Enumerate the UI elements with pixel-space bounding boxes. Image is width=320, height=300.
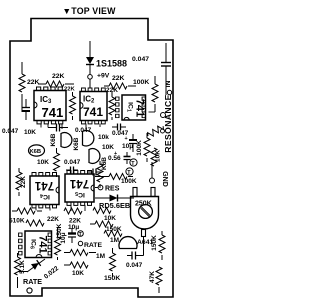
potentiometer 250K — [131, 188, 159, 237]
wire IC5 to 100K — [95, 176, 104, 178]
title TOP VIEW — [62, 6, 116, 16]
svg-text:0.047: 0.047 — [64, 159, 81, 166]
svg-text:1M: 1M — [96, 253, 105, 260]
resistor 10K below zener — [93, 208, 116, 223]
wire diode top — [89, 41, 91, 57]
resistor 22K vertical left of IC1 — [106, 87, 118, 120]
svg-text:741: 741 — [34, 179, 54, 191]
node GND — [150, 171, 169, 187]
capacitor 0.047 top right — [132, 43, 171, 95]
resistor 150K vertical right of IC6 — [55, 223, 64, 260]
transistor K6B no.1 — [50, 133, 72, 148]
node IN — [165, 81, 172, 95]
wire pot to cap — [141, 237, 144, 256]
terminal RES — [98, 185, 120, 192]
resistor 150K right vertical — [151, 231, 165, 260]
wire 9V to IC2 — [89, 79, 91, 88]
terminal +9V — [88, 73, 110, 80]
wire GND vertical — [151, 162, 153, 178]
capacitor 0.56 — [108, 152, 131, 164]
svg-text:RESONANCE: RESONANCE — [163, 94, 173, 153]
resistor 10K right vertical — [151, 148, 162, 166]
svg-text:10μ: 10μ — [68, 224, 79, 231]
svg-text:10K: 10K — [104, 215, 116, 222]
svg-text:100K: 100K — [121, 178, 137, 185]
capacitor electrolytic left — [22, 99, 30, 120]
svg-text:IC6: IC6 — [29, 239, 37, 249]
svg-text:+: + — [125, 136, 128, 142]
svg-text:100K: 100K — [133, 79, 149, 86]
wire IC3 pin leads — [41, 124, 62, 130]
wire IC4 pin leads — [36, 208, 50, 211]
test point T1 — [130, 159, 137, 167]
resistor 1M bottom horizontal — [64, 250, 105, 261]
svg-text:150K: 150K — [151, 235, 158, 251]
svg-text:K6B: K6B — [50, 133, 57, 146]
wire IC2 pin leads — [86, 124, 100, 129]
svg-text:1M: 1M — [110, 237, 119, 244]
hole right — [161, 113, 166, 118]
svg-text:0.047: 0.047 — [132, 56, 149, 63]
resistor 150K bottom mid horizontal — [90, 221, 122, 233]
board outline — [10, 19, 173, 298]
resistor vertical below K6B no.3 — [97, 164, 103, 188]
svg-text:IN: IN — [165, 81, 172, 88]
svg-text:K6B: K6B — [101, 157, 108, 170]
resistor between IC3 and IC2 — [70, 92, 76, 120]
label 22K mid resistor — [64, 87, 75, 93]
svg-text:10K: 10K — [24, 129, 36, 136]
transistor K6B no.3 — [89, 149, 108, 170]
wire 5.1K to border — [17, 281, 19, 288]
resistor 22K vertical left of IC4 — [16, 168, 27, 196]
op-amp IC6 741 (rotated) — [19, 231, 52, 258]
svg-text:1S1588: 1S1588 — [96, 59, 127, 69]
resistor 22K horizontal right of +9V — [104, 75, 136, 89]
svg-text:0.047: 0.047 — [2, 128, 19, 135]
svg-text:22K: 22K — [112, 75, 125, 82]
diode RD5.6EB zener — [95, 195, 134, 211]
resistor 47K bottom right vertical — [149, 267, 162, 293]
svg-text:+9V: +9V — [97, 73, 110, 80]
capacitor 0.047 below IC3 — [48, 124, 92, 135]
resistor 100K mid horizontal — [104, 174, 137, 186]
transistor K6B circled label — [29, 145, 45, 156]
wire T3 to resistor — [99, 161, 101, 165]
svg-text:0.047: 0.047 — [126, 262, 143, 269]
svg-text:IC1: IC1 — [126, 102, 134, 112]
capacitor small above IC5 — [88, 169, 102, 176]
svg-text:K6B: K6B — [30, 149, 42, 155]
svg-text:10K: 10K — [37, 159, 49, 166]
resistor 22K left vertical — [19, 62, 40, 112]
svg-text:GND: GND — [161, 171, 168, 187]
transistor K6B no.2 — [73, 131, 94, 151]
label 10K — [24, 129, 36, 136]
capacitor 10u electrolytic — [114, 134, 137, 157]
label 0.047 far left — [2, 128, 19, 135]
svg-text:22K: 22K — [52, 73, 65, 80]
op-amp IC2 741 — [80, 88, 107, 124]
svg-text:47K: 47K — [149, 271, 156, 283]
wire IC1 to 100K — [149, 111, 156, 113]
svg-text:K6B: K6B — [73, 137, 80, 150]
op-amp IC4 741 (rotated 180) — [30, 173, 59, 208]
op-amp IC1 741 (rotated) — [116, 95, 146, 120]
test point T2 — [126, 168, 133, 176]
svg-text:RATE: RATE — [84, 242, 102, 249]
node RATE bottom — [23, 277, 42, 293]
svg-text:IC5: IC5 — [75, 190, 85, 198]
resistor 100K top right vertical — [133, 76, 158, 110]
op-amp IC5 741 (rotated 180) — [65, 171, 94, 206]
svg-text:22K: 22K — [47, 216, 59, 223]
svg-text:741: 741 — [69, 177, 89, 189]
svg-text:100K: 100K — [136, 140, 143, 156]
label 10k + capacitor 0.047 mid — [98, 124, 129, 142]
resistor 5.1K vertical — [15, 253, 27, 281]
svg-text:0.56: 0.56 — [108, 155, 121, 162]
diode 0.022 diagonal — [18, 259, 60, 281]
wire IC5 to RES — [95, 187, 98, 189]
label 10K mid — [102, 144, 114, 151]
svg-text:741: 741 — [42, 105, 64, 120]
wire IC5 pin leads — [71, 205, 85, 211]
resistor 100K mid-right vertical — [136, 133, 150, 162]
svg-text:IC4: IC4 — [40, 192, 50, 200]
capacitor 0.047 left-mid — [64, 159, 81, 174]
resistor 150K bottom vertical — [104, 248, 120, 282]
transistor A641 — [119, 237, 153, 249]
capacitor 10u bottom with terminal — [60, 228, 83, 244]
diode D1 1S1588 — [86, 57, 127, 74]
svg-text:741: 741 — [134, 99, 146, 117]
resistor diagonal top — [146, 124, 164, 139]
svg-text:741: 741 — [37, 235, 49, 253]
terminal RATE mid — [78, 241, 102, 249]
resistor 1M horizontal — [104, 231, 122, 245]
resistor 10K bottom horizontal — [64, 262, 88, 277]
resistor 22K horizontal below IC5 — [64, 208, 82, 231]
svg-text:22K: 22K — [27, 79, 40, 86]
resistor 510K horizontal — [9, 208, 59, 225]
wire 100K top to IC1 — [154, 104, 156, 112]
resistor above IC6 horizontal — [26, 220, 44, 226]
svg-text:RD5.6EB: RD5.6EB — [99, 201, 130, 210]
svg-text:10K: 10K — [72, 270, 84, 277]
svg-text:150K: 150K — [104, 275, 120, 282]
svg-text:250K: 250K — [135, 201, 152, 208]
svg-text:▼TOP VIEW: ▼TOP VIEW — [62, 6, 116, 16]
svg-text:RATE: RATE — [23, 277, 42, 286]
capacitor 0.047 bottom — [126, 252, 143, 270]
svg-text:10k: 10k — [98, 134, 109, 141]
svg-text:510K: 510K — [9, 218, 25, 225]
svg-text:RES: RES — [105, 186, 120, 193]
svg-text:150K: 150K — [106, 226, 122, 233]
svg-text:22K: 22K — [64, 87, 75, 93]
node RESONANCE — [163, 94, 173, 153]
svg-text:10K: 10K — [102, 144, 114, 151]
resistor 22K horizontal upper left — [38, 73, 74, 87]
resistor 10K left-mid vertical — [37, 148, 60, 177]
svg-text:741: 741 — [83, 105, 103, 119]
op-amp IC3 741 — [34, 87, 66, 124]
